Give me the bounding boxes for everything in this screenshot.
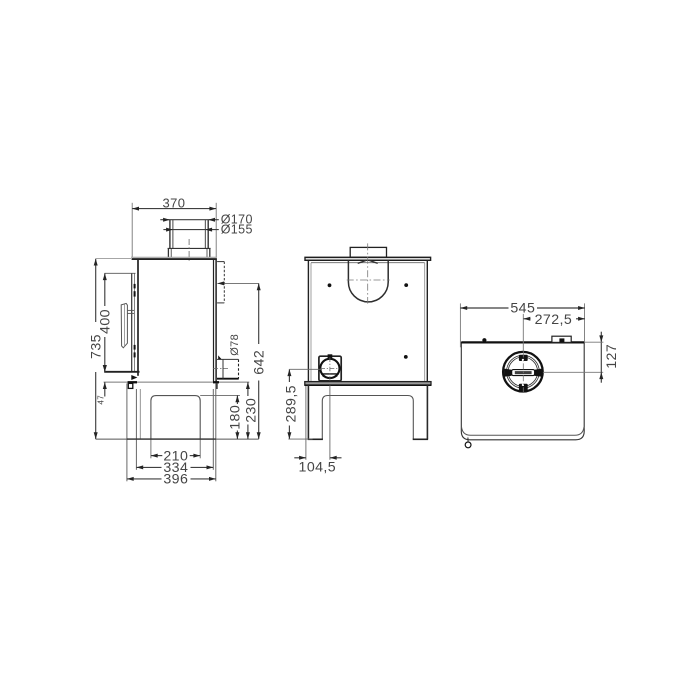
body front face xyxy=(137,259,139,376)
735 top extension xyxy=(96,258,131,260)
rear base step (dark) xyxy=(213,381,219,383)
flue pipe (side view) xyxy=(168,220,211,258)
spigot weld mark xyxy=(218,355,221,359)
svg-text:Ø155: Ø155 xyxy=(221,223,253,237)
air inlet spigot (rear view) xyxy=(319,354,341,381)
svg-text:Ø78: Ø78 xyxy=(229,334,241,356)
door hinges xyxy=(134,284,136,358)
floor line xyxy=(96,438,259,440)
dimension 334 xyxy=(136,460,213,476)
dimension D170 xyxy=(160,213,253,227)
door front face xyxy=(104,273,139,372)
centerline horizontal (rear view) xyxy=(347,279,390,281)
dimension 210 xyxy=(151,448,200,464)
centerline vertical (rear view) xyxy=(367,243,369,303)
svg-text:400: 400 xyxy=(98,309,114,334)
svg-text:289,5: 289,5 xyxy=(284,385,300,423)
base verticals / extension lines xyxy=(127,383,216,481)
dimension 545 extension lines xyxy=(460,303,584,347)
front base step (dark) xyxy=(128,375,138,383)
dimension 642 xyxy=(251,283,267,439)
dimension 289,5 xyxy=(284,369,322,439)
stove body top plate (side) xyxy=(131,257,217,259)
dimension 370 extension lines xyxy=(132,203,216,257)
front foot / hook xyxy=(465,442,471,448)
svg-text:735: 735 xyxy=(89,334,105,359)
svg-text:230: 230 xyxy=(243,398,259,423)
svg-text:272,5: 272,5 xyxy=(535,312,573,328)
svg-text:47: 47 xyxy=(97,395,106,405)
handle bracket xyxy=(127,310,134,313)
knob on rear edge xyxy=(482,338,486,342)
svg-text:642: 642 xyxy=(251,350,267,375)
svg-text:127: 127 xyxy=(604,344,620,369)
dimension 396 xyxy=(127,472,216,488)
dimension 272,5 xyxy=(524,312,585,328)
dimension 180 xyxy=(228,395,244,439)
svg-text:104,5: 104,5 xyxy=(299,460,337,476)
dimension 127 xyxy=(584,332,620,383)
rear edge (thick) xyxy=(461,341,584,343)
flue heat shield cutout (U shape) xyxy=(348,260,388,302)
door handle xyxy=(121,303,127,347)
leader from flue to 127 xyxy=(543,371,603,373)
dimension 545 xyxy=(460,300,585,316)
mounting holes xyxy=(328,283,409,359)
rear air inlet spigot (side view) xyxy=(217,359,239,378)
body sides (rear view) xyxy=(308,260,427,381)
top view outline xyxy=(461,342,584,439)
svg-text:370: 370 xyxy=(163,195,186,210)
top plate (rear view) xyxy=(305,257,431,260)
dimension D155 xyxy=(163,223,252,237)
svg-text:545: 545 xyxy=(510,300,535,316)
upper rear convection outlet box xyxy=(217,262,224,303)
spigot centerline xyxy=(213,368,228,370)
dimension 230 xyxy=(243,382,259,439)
dimension 735 xyxy=(89,259,105,439)
dimension 370 xyxy=(132,195,216,210)
base top line xyxy=(104,381,250,383)
flue pipe centerline xyxy=(188,239,190,263)
body rear wall xyxy=(214,260,217,382)
svg-text:396: 396 xyxy=(163,472,188,488)
leader for 642 xyxy=(217,281,258,285)
flue collar (top view) xyxy=(503,352,543,392)
dimension 400 xyxy=(98,273,114,372)
damper handle housing xyxy=(552,336,571,342)
front band line xyxy=(462,427,585,436)
flue centerline (top view) xyxy=(522,314,524,352)
flue stub (rear view) xyxy=(350,247,386,257)
niche extension lines xyxy=(151,395,240,458)
pedestal legs (rear view) xyxy=(308,385,427,439)
dimension 47 xyxy=(97,365,107,405)
bottom plate (rear view) xyxy=(305,382,431,386)
storage niche (rounded opening) xyxy=(151,396,200,440)
cutout chamfer marks xyxy=(358,260,378,263)
dimension 104,5 xyxy=(294,385,341,475)
svg-text:180: 180 xyxy=(228,405,244,430)
